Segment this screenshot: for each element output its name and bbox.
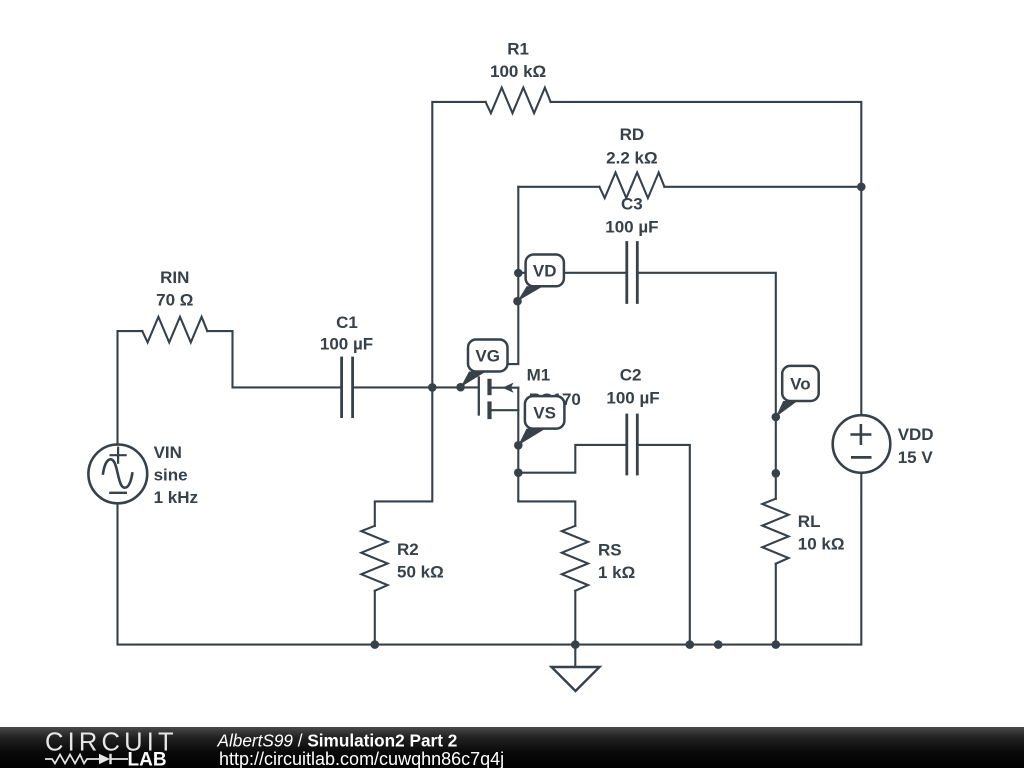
svg-text:100 kΩ: 100 kΩ bbox=[490, 62, 546, 81]
svg-text:VS: VS bbox=[533, 404, 556, 423]
svg-text:50 kΩ: 50 kΩ bbox=[397, 563, 444, 582]
svg-text:RS: RS bbox=[598, 541, 622, 560]
svg-text:100 µF: 100 µF bbox=[320, 335, 373, 354]
svg-text:R2: R2 bbox=[397, 540, 419, 559]
svg-text:VD: VD bbox=[533, 262, 557, 281]
svg-text:15 V: 15 V bbox=[898, 448, 934, 467]
svg-text:RD: RD bbox=[620, 125, 645, 144]
svg-text:1 kHz: 1 kHz bbox=[154, 488, 198, 507]
svg-text:C1: C1 bbox=[336, 313, 358, 332]
svg-text:Vo: Vo bbox=[790, 375, 810, 394]
svg-text:VIN: VIN bbox=[154, 443, 182, 462]
svg-text:1 kΩ: 1 kΩ bbox=[598, 563, 635, 582]
svg-text:R1: R1 bbox=[507, 40, 529, 59]
svg-text:100 µF: 100 µF bbox=[605, 218, 658, 237]
svg-text:C3: C3 bbox=[621, 195, 643, 214]
svg-text:sine: sine bbox=[154, 466, 188, 485]
svg-text:C2: C2 bbox=[620, 366, 642, 385]
svg-text:M1: M1 bbox=[527, 366, 551, 385]
svg-text:http://circuitlab.com/cuwqhn86: http://circuitlab.com/cuwqhn86c7q4j bbox=[219, 749, 504, 768]
svg-text:70 Ω: 70 Ω bbox=[156, 291, 193, 310]
svg-text:10 kΩ: 10 kΩ bbox=[798, 535, 845, 554]
svg-text:VDD: VDD bbox=[898, 425, 934, 444]
svg-text:RL: RL bbox=[798, 512, 821, 531]
svg-text:LAB: LAB bbox=[128, 750, 167, 768]
svg-text:100 µF: 100 µF bbox=[606, 389, 659, 408]
svg-text:AlbertS99 / Simulation2 Part 2: AlbertS99 / Simulation2 Part 2 bbox=[217, 731, 458, 751]
svg-text:RIN: RIN bbox=[160, 268, 189, 287]
svg-text:2.2 kΩ: 2.2 kΩ bbox=[606, 149, 657, 168]
svg-text:VG: VG bbox=[475, 347, 500, 366]
